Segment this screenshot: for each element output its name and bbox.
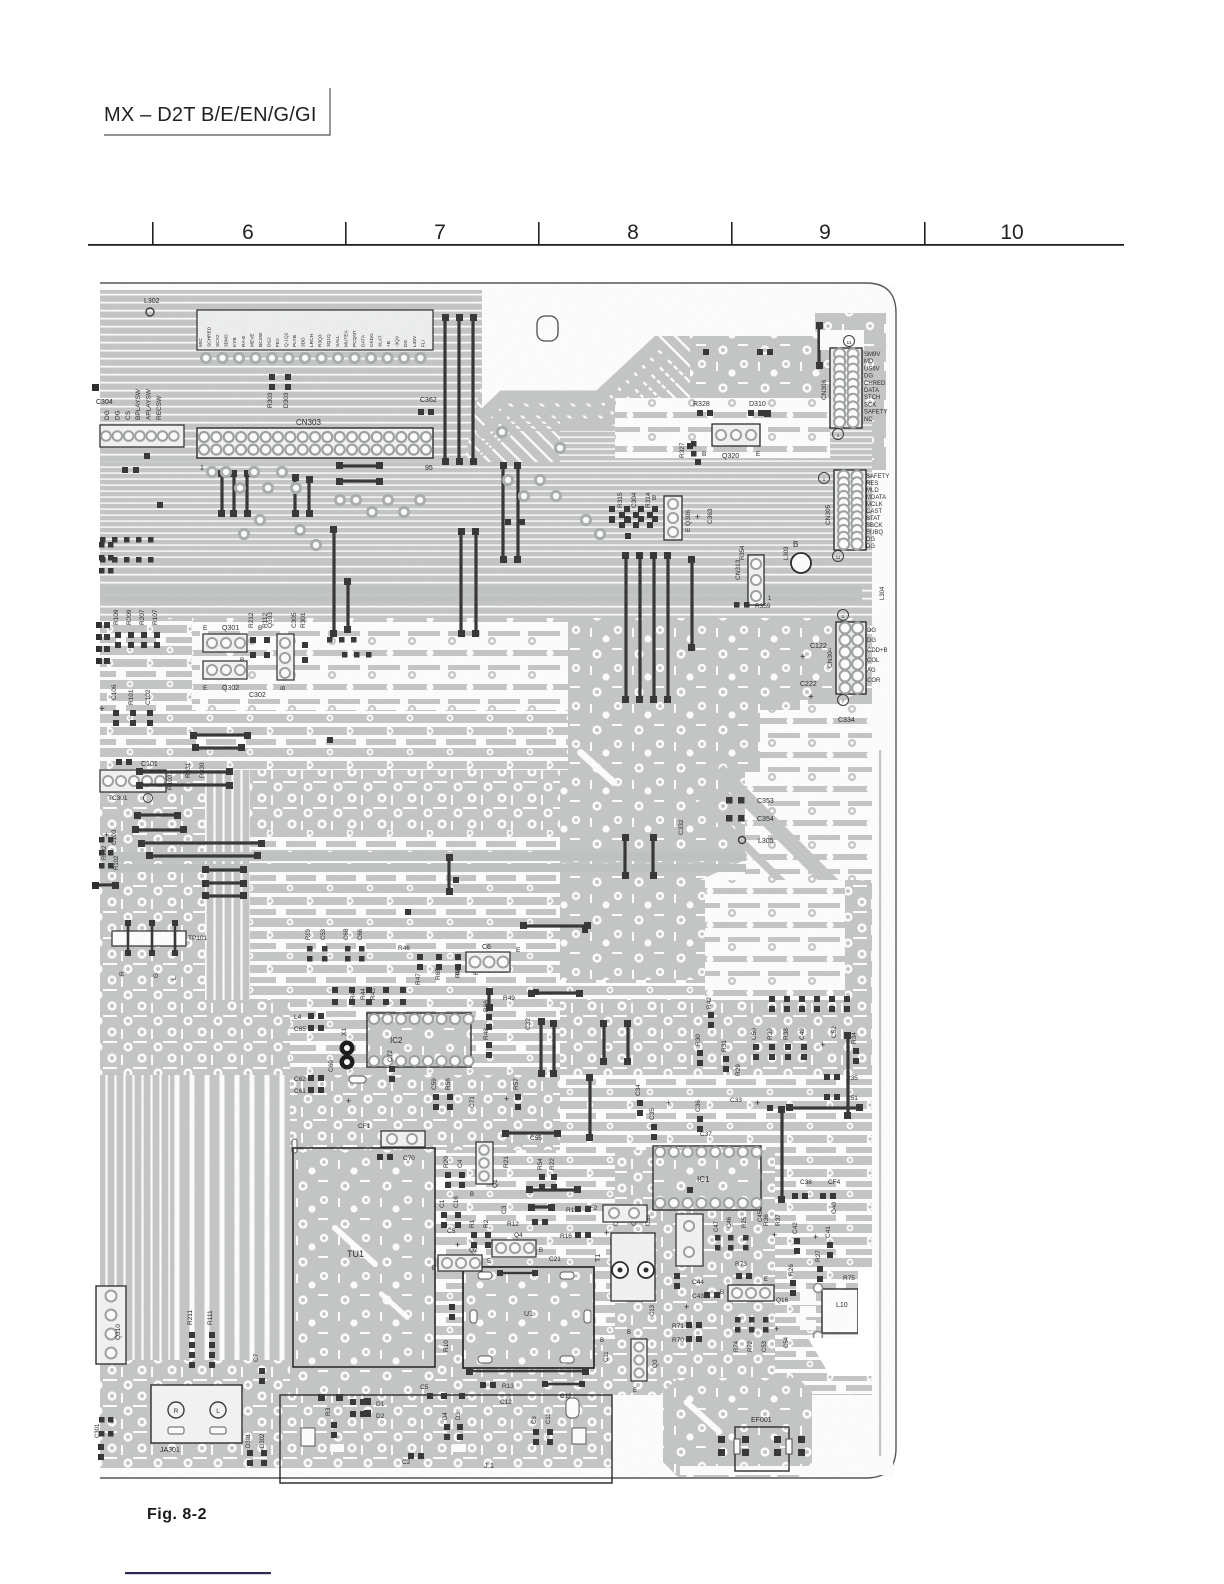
transistor Q306 bbox=[664, 496, 682, 540]
pad row right cluster bbox=[769, 996, 775, 1002]
IC2 bbox=[367, 1013, 471, 1067]
white slots in J1 bbox=[301, 1428, 315, 1446]
connector CN306 bbox=[830, 348, 862, 428]
via pads top band bbox=[201, 353, 210, 362]
transistor Q302 bbox=[203, 661, 247, 679]
wire jumpers center (5x) bbox=[624, 556, 627, 700]
transistor Q1 bbox=[476, 1142, 493, 1184]
svg-text:6: 6 bbox=[242, 221, 254, 244]
transistor Q303 bbox=[277, 634, 294, 680]
svg-text:8: 8 bbox=[627, 221, 639, 244]
copper ground regions bbox=[100, 290, 484, 465]
clearance notch above CN306 bbox=[820, 330, 864, 350]
CF2 bbox=[603, 1205, 647, 1222]
IC1 bbox=[653, 1146, 761, 1210]
Q16 bbox=[728, 1285, 774, 1301]
grid ruler bbox=[88, 221, 1124, 246]
module U1 bbox=[463, 1267, 594, 1368]
left edge pads bbox=[99, 542, 105, 548]
wire jumpers left column bbox=[194, 733, 247, 736]
white margin near L10 bbox=[858, 1268, 874, 1338]
top clearance area bbox=[482, 290, 886, 410]
PCB board outline bbox=[100, 283, 896, 1478]
jumper near CN306 bbox=[817, 325, 820, 365]
svg-text:MX – D2T B/E/EN/G/GI: MX – D2T B/E/EN/G/GI bbox=[104, 104, 317, 126]
capacitor C6 box bbox=[466, 952, 510, 972]
wire jumpers mid-left bbox=[332, 530, 335, 634]
filter EF001 bbox=[735, 1427, 789, 1471]
connector CN313 bbox=[748, 555, 764, 605]
right margin trace bbox=[879, 750, 881, 1456]
wire jumpers center pour bbox=[623, 837, 626, 875]
scan grain bbox=[100, 284, 894, 1477]
Q4 box bbox=[492, 1240, 536, 1257]
svg-text:9: 9 bbox=[819, 221, 831, 244]
chevron trace bands bbox=[480, 341, 659, 419]
mounting hole bbox=[537, 316, 558, 341]
connector J1 bbox=[280, 1395, 612, 1483]
jack JA301 bbox=[151, 1385, 242, 1443]
misc pads bbox=[144, 453, 150, 459]
L10 bbox=[822, 1289, 858, 1333]
transistor Q310 bbox=[96, 1286, 126, 1364]
header title block bbox=[104, 88, 330, 135]
connector CN305 bbox=[834, 470, 866, 550]
wire jumper center-left bbox=[523, 924, 587, 927]
T1 transformer bbox=[611, 1233, 655, 1301]
test point B bbox=[791, 553, 811, 573]
left connector bbox=[100, 425, 184, 447]
tuner TU1 bbox=[293, 1148, 435, 1367]
long jumpers right bbox=[780, 1110, 783, 1200]
CF1 filter bbox=[381, 1131, 425, 1147]
wire jumpers under CN303 bbox=[220, 474, 223, 514]
bottom rule bbox=[125, 1572, 271, 1574]
connector CN304 bbox=[836, 622, 866, 694]
right margin bbox=[680, 308, 893, 1475]
svg-text:10: 10 bbox=[1000, 221, 1023, 244]
IC TC301 bbox=[100, 770, 166, 792]
wire jumpers J top-center bbox=[443, 318, 446, 462]
figure caption bbox=[125, 1506, 271, 1574]
test pins TP101 bbox=[112, 931, 186, 946]
pin label box (top) bbox=[197, 310, 433, 350]
svg-text:7: 7 bbox=[434, 221, 446, 244]
svg-text:Fig. 8-2: Fig. 8-2 bbox=[147, 1506, 207, 1523]
transistor Q320 bbox=[712, 424, 760, 446]
wide trace bus y852-874 bbox=[100, 852, 746, 861]
wide trace y586 bbox=[100, 586, 862, 593]
